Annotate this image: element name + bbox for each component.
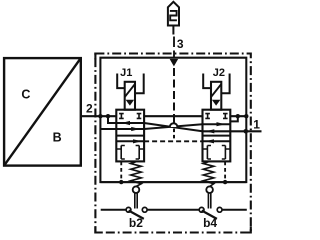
switch b2 contact right	[142, 207, 147, 212]
switch b4 lever	[202, 211, 217, 219]
wire port1 line	[202, 130, 261, 132]
solenoid J1 coil	[125, 82, 135, 110]
valve J2 lower port left	[203, 146, 212, 160]
solenoid J1 frame right	[135, 74, 144, 94]
plunger J1	[135, 193, 137, 208]
valve J2 port mark top-left	[205, 114, 210, 119]
valve J2 lower port right	[222, 146, 231, 160]
connector stem	[172, 26, 174, 35]
svg-text:b2: b2	[129, 216, 143, 230]
wire J1 lower channel	[100, 128, 144, 130]
connector inner contact	[170, 11, 177, 20]
dash-dot subsystem border	[95, 54, 250, 233]
inner manifold outline	[100, 58, 246, 182]
switch b4 contact right	[217, 207, 222, 212]
valve J1 body	[116, 110, 144, 162]
roller J1	[133, 186, 140, 193]
solenoid J1 diagonal	[125, 84, 135, 97]
valve J1 divider	[116, 135, 144, 137]
svg-text:C: C	[21, 87, 30, 101]
solenoid J2 frame right	[221, 74, 229, 94]
switch b4 contact left	[199, 207, 204, 212]
drain dashed J1	[120, 161, 122, 182]
node drain J1	[119, 180, 123, 184]
switch wire middle	[147, 209, 199, 211]
node port2 branch	[98, 114, 102, 118]
solenoid J2 diagonal	[211, 84, 221, 97]
solenoid J2 coil	[211, 82, 221, 110]
valve J2 pilot arrow lower	[203, 140, 231, 142]
svg-text:J2: J2	[213, 67, 225, 79]
wire J2 right jog	[230, 116, 238, 121]
wire J2 upper channel	[203, 123, 231, 125]
arrowhead into manifold	[170, 59, 179, 67]
solenoid J1 frame left	[117, 74, 125, 89]
diagonal divider of box	[4, 58, 81, 166]
plunger J2	[208, 193, 210, 208]
wire port2 horizontal	[81, 115, 117, 117]
valve J1 lower port left	[116, 146, 125, 160]
solenoid J2 valve seat triangle	[212, 100, 221, 106]
drain dashed J2	[224, 161, 226, 182]
arrowhead right in J1	[131, 127, 140, 131]
arrowhead left in J1	[121, 121, 130, 125]
svg-text:3: 3	[177, 37, 184, 51]
node port2 branch 2	[106, 114, 110, 118]
switch b2 contact left	[126, 207, 131, 212]
valve J2 divider	[203, 135, 231, 137]
connector plug (port 3)	[168, 2, 179, 26]
arrowhead right in J2	[217, 122, 226, 126]
border corner fills	[95, 54, 250, 233]
solenoid J2 frame left	[203, 74, 211, 89]
valve J1 port mark top-left	[119, 114, 124, 119]
valve J1 pilot arrow lower	[116, 140, 144, 142]
wire crossing diagonal A	[144, 123, 202, 131]
valve J1 port mark top-right	[137, 114, 142, 119]
solenoid J1 valve seat triangle	[126, 100, 135, 106]
svg-text:1: 1	[253, 118, 260, 132]
wire J1 feed jog	[108, 116, 144, 123]
pilot line 3 dashed inside	[173, 68, 175, 116]
switch wire right	[222, 209, 247, 211]
wire interconnect between valves	[144, 115, 202, 117]
svg-text:b4: b4	[203, 216, 217, 230]
svg-text:2: 2	[86, 101, 93, 115]
pilot dashed line between valves	[144, 140, 202, 142]
crossover hop of pilot line 3	[173, 116, 175, 123]
roller J2	[206, 186, 213, 193]
pilot line 3 upper dashed	[173, 37, 175, 58]
drain rail	[100, 181, 246, 183]
node frame right top	[244, 114, 248, 118]
valve J2 port mark top-right	[223, 114, 228, 119]
valve J2 body	[203, 110, 231, 162]
spring J2	[203, 162, 214, 187]
svg-text:J1: J1	[120, 67, 132, 79]
transmission unit box C/B	[4, 58, 81, 166]
switch b2 lever	[129, 211, 144, 219]
spring J1	[131, 162, 142, 187]
node port1 frame	[244, 129, 249, 134]
wire crossing diagonal B	[144, 124, 202, 129]
node J2 right branch	[236, 114, 240, 118]
node drain J2	[223, 180, 227, 184]
arrowhead left in J2 port1	[206, 129, 215, 133]
svg-text:B: B	[53, 130, 62, 144]
wire right of J2	[230, 115, 246, 117]
valve J1 lower port right	[136, 146, 145, 160]
switch wire left stub	[101, 209, 126, 211]
